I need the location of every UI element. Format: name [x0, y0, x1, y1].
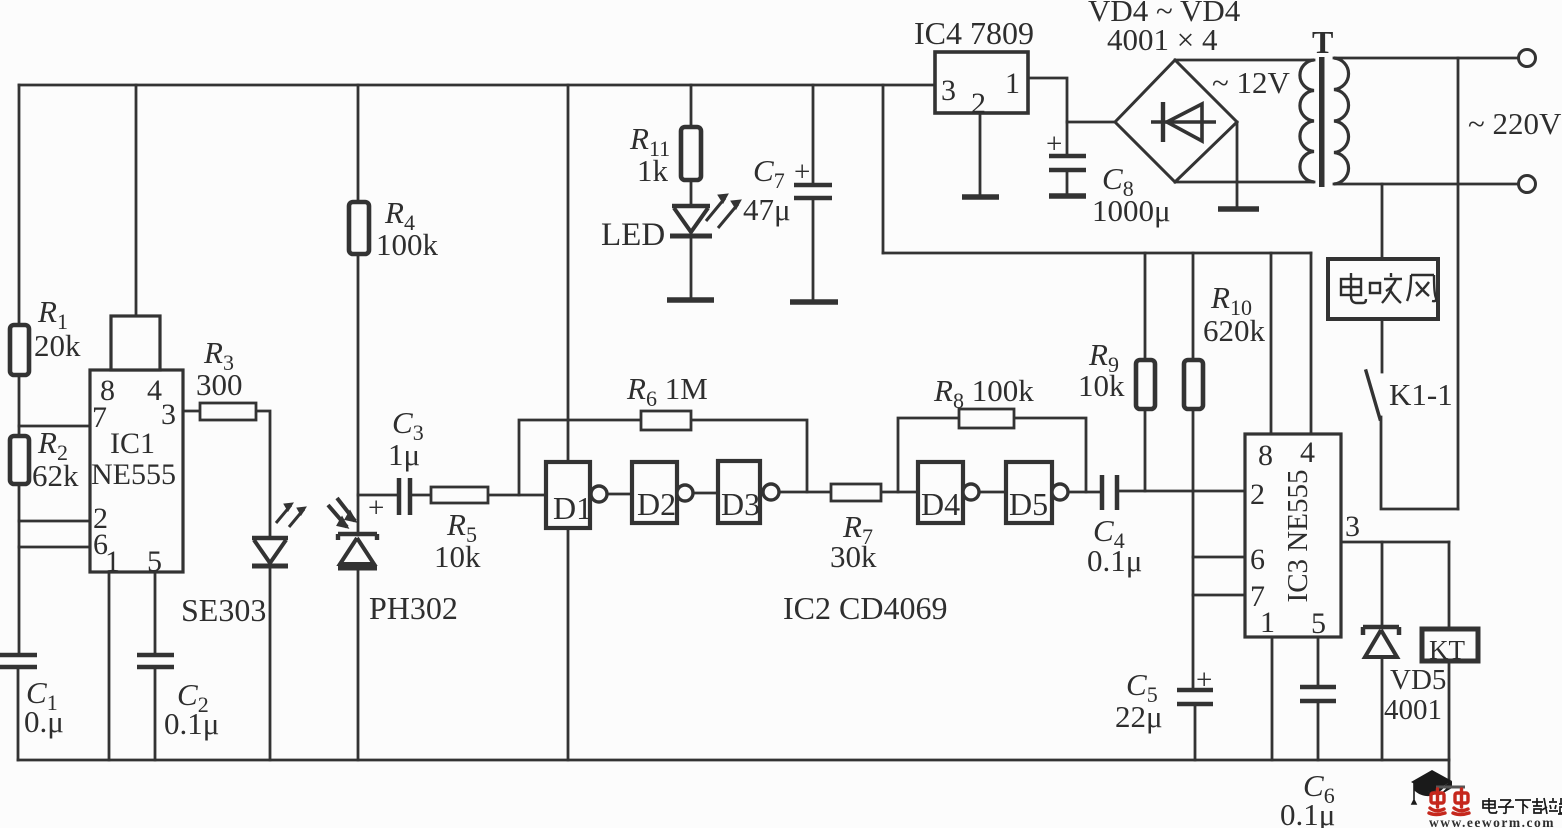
- resistor R9: [1136, 360, 1155, 409]
- wire D2 to D3: [693, 492, 718, 495]
- wire IC4 pin2 to ground: [979, 113, 982, 196]
- capacitor C2: [137, 655, 174, 667]
- wire pin2 of IC1: [19, 520, 90, 523]
- capacitor C3: [399, 478, 410, 515]
- wire IC3 pin6: [1193, 556, 1245, 559]
- ground bridge negative: [1218, 206, 1259, 212]
- wire D3 to R7: [779, 491, 831, 494]
- wire D1 input riser to R6: [519, 420, 641, 495]
- wire top 9V rail: [19, 84, 935, 87]
- LED SE303 emitter diode: [252, 503, 306, 566]
- wire vertical through D1 column: [567, 85, 570, 760]
- svg-text:~ 220V: ~ 220V: [1468, 106, 1562, 141]
- wire LED to ground bar: [690, 237, 693, 299]
- svg-text:3: 3: [1345, 510, 1360, 543]
- wire switch blade K1-1: [1366, 371, 1380, 419]
- wire pin7 of IC1: [19, 425, 90, 428]
- wire primary bottom to terminal: [1334, 183, 1519, 186]
- wire heater bottom to switch: [1381, 319, 1384, 372]
- svg-text:1: 1: [105, 545, 120, 578]
- wire C5 to ground rail: [1194, 704, 1197, 760]
- wire R7 to D4: [881, 491, 918, 494]
- op-amp IC1 NE555 box: [90, 370, 183, 572]
- wire D1 to D2: [607, 493, 632, 496]
- wire R5 to D1: [488, 494, 548, 497]
- wire C4 to IC3 pin2: [1119, 490, 1245, 493]
- resistor R3: [200, 403, 256, 420]
- svg-text:10k: 10k: [434, 539, 481, 574]
- IC1 top notch: [111, 316, 160, 370]
- resistor R7: [831, 484, 881, 501]
- svg-text:IC3 NE555: IC3 NE555: [1282, 470, 1314, 603]
- svg-text:3: 3: [161, 398, 176, 431]
- wire C1 bottom to ground rail: [17, 667, 20, 760]
- wire left branch R1 column: [18, 85, 21, 655]
- svg-text:+: +: [1196, 664, 1212, 696]
- relay coil KT: [1422, 629, 1478, 661]
- svg-text:IC2 CD4069: IC2 CD4069: [783, 590, 947, 626]
- terminal top 220V: [1519, 50, 1536, 67]
- svg-text:620k: 620k: [1203, 313, 1266, 348]
- wire C7 branch from rail: [812, 85, 815, 185]
- svg-text:1k: 1k: [637, 153, 669, 188]
- wire switch to bottom corner: [1381, 417, 1458, 509]
- inverter D1: [546, 462, 590, 528]
- wire primary top to terminal: [1334, 57, 1519, 60]
- transformer core: [1319, 57, 1325, 187]
- wire PH302 junction to C3: [358, 494, 396, 497]
- svg-text:5: 5: [147, 545, 162, 578]
- svg-text:7: 7: [92, 401, 107, 434]
- diode bridge VD1-VD4: [1115, 60, 1237, 182]
- svg-text:LED: LED: [601, 217, 665, 253]
- svg-text:IC4 7809: IC4 7809: [914, 15, 1034, 51]
- heater text 电吹风 (drawn glyphs): [1341, 273, 1436, 303]
- wire R3 to SE303: [256, 411, 270, 538]
- wire R4 PH302 column: [357, 85, 360, 535]
- watermark graduation cap: [1411, 770, 1465, 804]
- svg-text:D2: D2: [637, 486, 676, 522]
- svg-text:0.1μ: 0.1μ: [1280, 797, 1335, 828]
- wire R9 column: [1144, 253, 1147, 491]
- svg-text:+: +: [368, 492, 384, 524]
- svg-text:2: 2: [971, 87, 986, 120]
- capacitor C8: [1049, 156, 1086, 170]
- svg-text:SE303: SE303: [181, 592, 266, 628]
- wire 220V line down right side: [1457, 58, 1460, 509]
- LED indicator diode: [670, 194, 741, 236]
- wire R10 C5 column: [1192, 253, 1195, 690]
- svg-text:100k: 100k: [376, 227, 439, 262]
- svg-text:0.1μ: 0.1μ: [164, 706, 219, 741]
- capacitor C4: [1102, 475, 1117, 510]
- diode VD5 4001: [1363, 627, 1399, 657]
- transformer T secondary winding: [1334, 58, 1349, 184]
- wire IC3 pin7: [1193, 594, 1245, 597]
- inverter D3: [718, 461, 760, 523]
- resistor R11: [681, 127, 701, 180]
- wire IC3 pin1 to ground: [1271, 637, 1274, 760]
- terminal bottom 220V: [1519, 176, 1536, 193]
- wire bridge top corner to secondary top: [1175, 59, 1314, 62]
- svg-text:NE555: NE555: [91, 458, 176, 491]
- svg-text:D1: D1: [553, 490, 592, 526]
- wire pin6 of IC1: [19, 546, 90, 549]
- wire IC3 pin5 to C6: [1317, 637, 1320, 687]
- heater box 电吹风: [1328, 259, 1438, 319]
- svg-text:K1-1: K1-1: [1389, 377, 1453, 412]
- resistor R2: [10, 436, 29, 484]
- svg-text:10k: 10k: [1078, 368, 1125, 403]
- wire D4 input riser to R8: [898, 418, 959, 492]
- resistor R1: [10, 325, 29, 375]
- resistor R5: [431, 487, 488, 503]
- svg-text:2: 2: [1250, 478, 1265, 511]
- wire SE303 to ground rail: [269, 568, 272, 760]
- svg-text:T: T: [1312, 24, 1333, 60]
- svg-text:47μ: 47μ: [743, 192, 791, 227]
- watermark 虫虫 red bugs: [1429, 789, 1469, 815]
- wire second 9V rail: [883, 252, 1311, 255]
- svg-text:0.μ: 0.μ: [24, 704, 64, 739]
- svg-text:6: 6: [1250, 543, 1265, 576]
- op-amp IC3 NE555 box: [1245, 434, 1341, 637]
- svg-text:D4: D4: [921, 486, 960, 522]
- wire KT stub below rail: [1448, 760, 1451, 786]
- wire heater top connection: [1381, 184, 1384, 259]
- svg-text:4: 4: [1300, 436, 1315, 469]
- wire R11 to LED: [690, 180, 693, 206]
- resistor R10: [1184, 360, 1203, 409]
- svg-text:R6 1M: R6 1M: [626, 371, 708, 411]
- svg-text:22μ: 22μ: [1115, 699, 1163, 734]
- wire pin3 corner to KT: [1448, 542, 1451, 629]
- wire DC node to bridge left corner: [1067, 121, 1115, 124]
- svg-text:D5: D5: [1009, 486, 1048, 522]
- svg-text:~ 12V: ~ 12V: [1212, 65, 1291, 100]
- wire IC1 pin5 to C2: [154, 572, 157, 655]
- svg-text:3: 3: [941, 74, 956, 107]
- wire IC1 pin4 notch drop: [135, 85, 138, 316]
- wire IC1 pin1 to ground: [108, 572, 111, 760]
- svg-text:1: 1: [1005, 67, 1020, 100]
- svg-text:1: 1: [1260, 606, 1275, 639]
- ground IC4 pin2: [962, 194, 999, 200]
- svg-text:300: 300: [196, 367, 243, 402]
- wire ground bottom rail: [18, 759, 1449, 762]
- svg-text:5: 5: [1311, 607, 1326, 640]
- svg-text:www.eeworm.com: www.eeworm.com: [1429, 815, 1555, 828]
- capacitor C7: [794, 185, 832, 198]
- svg-text:PH302: PH302: [369, 590, 458, 626]
- capacitor C1: [0, 655, 37, 667]
- svg-text:KT: KT: [1429, 635, 1465, 665]
- capacitor C5: [1177, 690, 1213, 704]
- photodiode PH302: [328, 498, 377, 568]
- wire IC3 pin3 output: [1341, 541, 1449, 544]
- wire 9V riser to second rail: [882, 85, 885, 253]
- watermark 电子下载站 black text (drawn glyphs): [1483, 798, 1562, 814]
- wire IC4 pin1 output: [1028, 78, 1067, 122]
- wire C7 to ground bar: [812, 198, 815, 301]
- svg-text:4001 × 4: 4001 × 4: [1107, 22, 1218, 57]
- ground C8: [1049, 193, 1086, 199]
- wire IC3 pin4 drop: [1310, 253, 1313, 434]
- wire pin3 node to VD5: [1381, 542, 1384, 628]
- inverter D4: [918, 462, 963, 523]
- svg-text:30k: 30k: [830, 539, 877, 574]
- resistor R4: [349, 202, 369, 254]
- svg-text:IC1: IC1: [110, 427, 155, 460]
- svg-text:VD5: VD5: [1390, 664, 1446, 696]
- wire C2 to ground: [154, 667, 157, 760]
- wire PH302 to ground rail: [357, 568, 360, 760]
- svg-text:R8 100k: R8 100k: [933, 373, 1034, 413]
- wire D5 to C4: [1068, 491, 1100, 494]
- wire KT to ground rail: [1448, 660, 1451, 760]
- svg-text:D3: D3: [721, 486, 760, 522]
- regulator IC4 7809 box: [935, 52, 1028, 113]
- svg-text:20k: 20k: [34, 328, 81, 363]
- resistor R6: [641, 411, 691, 430]
- ground LED branch: [667, 297, 714, 303]
- svg-text:8: 8: [1258, 439, 1273, 472]
- svg-text:4001: 4001: [1384, 694, 1442, 726]
- svg-text:1000μ: 1000μ: [1092, 193, 1171, 228]
- svg-text:1μ: 1μ: [388, 437, 420, 472]
- wire C6 to ground: [1317, 701, 1320, 760]
- wire IC3 pin8 drop: [1270, 253, 1273, 434]
- wire VD5 to ground rail: [1381, 658, 1384, 760]
- svg-text:4: 4: [147, 374, 162, 407]
- wire R8 right to D5 output: [1014, 418, 1086, 492]
- wire C3 to R5: [412, 494, 431, 497]
- wire bridge right corner to ground: [1236, 122, 1239, 207]
- svg-text:+: +: [1046, 128, 1062, 160]
- wire IC1 pin3 to R3: [183, 410, 200, 413]
- wire R11 branch from rail: [690, 85, 693, 128]
- wire C8 branch: [1066, 122, 1069, 194]
- transformer T primary winding: [1300, 60, 1314, 182]
- wire R6 right to D3 output node: [691, 420, 807, 492]
- resistor R8: [959, 409, 1014, 428]
- svg-text:0.1μ: 0.1μ: [1087, 543, 1142, 578]
- ground C7 branch: [790, 299, 838, 305]
- wire bridge bottom corner to secondary bottom: [1175, 181, 1314, 184]
- wire D4 to D5: [979, 491, 1006, 494]
- svg-text:62k: 62k: [32, 458, 79, 493]
- inverter D2: [632, 462, 677, 523]
- svg-text:+: +: [794, 156, 810, 188]
- inverter D5: [1006, 462, 1052, 523]
- capacitor C6: [1300, 687, 1336, 701]
